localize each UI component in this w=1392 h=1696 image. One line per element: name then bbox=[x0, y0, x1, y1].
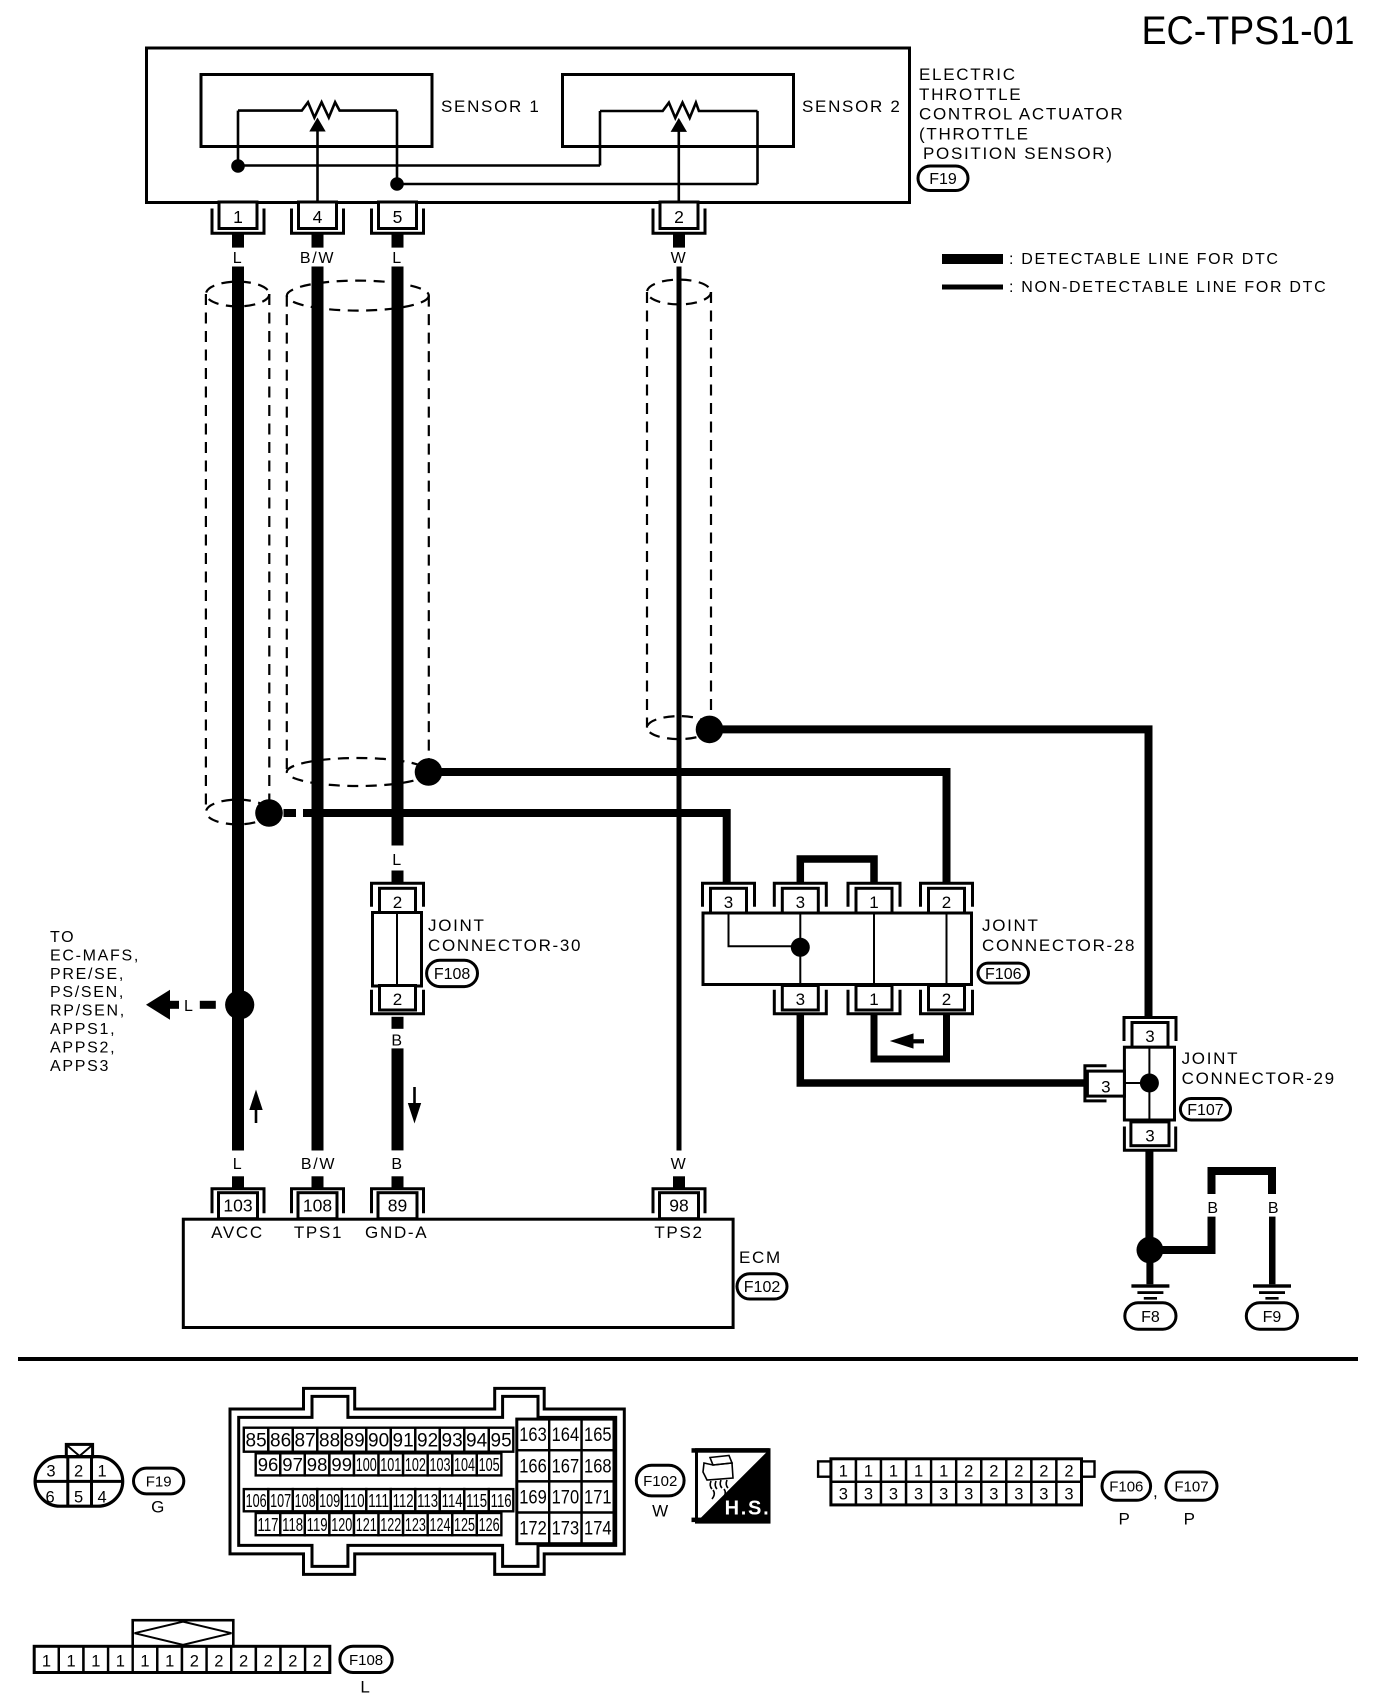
junction node on pin1 lead bbox=[231, 159, 245, 173]
svg-text:165: 165 bbox=[584, 1425, 612, 1446]
up arrow beside wire L bbox=[249, 1090, 262, 1124]
internal junction node connector-29 bbox=[1140, 1074, 1159, 1093]
F106/F107 connector face view bbox=[818, 1459, 1094, 1505]
connector id F108 oval bbox=[427, 960, 478, 986]
svg-text:2: 2 bbox=[1039, 1463, 1048, 1481]
dash stub from shield node bbox=[284, 809, 297, 817]
legend detectable line sample bbox=[942, 254, 1003, 264]
svg-text:2: 2 bbox=[964, 1463, 973, 1481]
svg-text:1: 1 bbox=[140, 1653, 149, 1671]
svg-text:4: 4 bbox=[98, 1489, 109, 1507]
svg-text:ECM: ECM bbox=[739, 1248, 782, 1267]
svg-text:TO: TO bbox=[50, 929, 75, 946]
ECM pin 89 bbox=[372, 1176, 424, 1218]
ECM pin 103 bbox=[212, 1176, 264, 1218]
TO EC-MAFS text block bbox=[50, 929, 140, 1075]
joint connector-28 top pin 2 bbox=[921, 883, 973, 913]
wire connector-28 bottom pin 3 to joint connector-29 bbox=[800, 1014, 1084, 1083]
svg-text:P: P bbox=[1118, 1510, 1131, 1529]
left arrow inside U loop bbox=[890, 1033, 924, 1048]
svg-text:97: 97 bbox=[282, 1454, 303, 1475]
F108 connector face view bbox=[34, 1620, 330, 1672]
potentiometer R2 (sensor 2) bbox=[600, 103, 758, 203]
svg-text:CONNECTOR-28: CONNECTOR-28 bbox=[982, 936, 1136, 955]
ground wire from node to F8 bbox=[1146, 1261, 1153, 1284]
F19 connector face view bbox=[35, 1444, 123, 1506]
svg-text:102: 102 bbox=[405, 1454, 426, 1475]
svg-text:85: 85 bbox=[246, 1431, 267, 1452]
svg-text:98: 98 bbox=[669, 1196, 688, 1216]
wire B from joint connector-30 to ECM 89 (detectable) bbox=[392, 1048, 404, 1150]
svg-text:: DETECTABLE LINE FOR DTC: : DETECTABLE LINE FOR DTC bbox=[1009, 251, 1280, 268]
svg-text:93: 93 bbox=[442, 1431, 463, 1452]
svg-text:F106: F106 bbox=[985, 966, 1022, 983]
svg-text:88: 88 bbox=[319, 1431, 340, 1452]
connector id F102 oval bbox=[737, 1274, 787, 1299]
svg-text:1: 1 bbox=[939, 1463, 948, 1481]
electric throttle control actuator box F19 bbox=[147, 48, 910, 203]
joint connector-30 bottom pin 2 bbox=[372, 986, 424, 1014]
joint connector-28 body F106 bbox=[703, 913, 972, 985]
svg-text:90: 90 bbox=[368, 1431, 389, 1452]
shield node W cylinder bbox=[696, 716, 724, 744]
svg-text:119: 119 bbox=[307, 1514, 328, 1535]
svg-text:TPS2: TPS2 bbox=[654, 1223, 703, 1242]
stub into joint connector-30 bbox=[392, 871, 404, 884]
jumper over to F9 (B wires) bbox=[1212, 1171, 1273, 1194]
svg-text:CONNECTOR-29: CONNECTOR-29 bbox=[1182, 1069, 1336, 1088]
ECM pins 96-105 bbox=[256, 1453, 502, 1475]
svg-text:117: 117 bbox=[258, 1514, 279, 1535]
svg-text:H.S.: H.S. bbox=[725, 1498, 771, 1520]
svg-text:6: 6 bbox=[46, 1489, 57, 1507]
svg-text:101: 101 bbox=[380, 1454, 401, 1475]
junction node on pin5 lead bbox=[390, 177, 404, 191]
svg-text:CONNECTOR-30: CONNECTOR-30 bbox=[428, 936, 582, 955]
svg-text:2: 2 bbox=[313, 1653, 322, 1671]
joint connector-30 top pin 2 bbox=[372, 883, 424, 913]
svg-text:SENSOR 2: SENSOR 2 bbox=[802, 97, 902, 116]
svg-text:91: 91 bbox=[393, 1431, 414, 1452]
stub below joint connector-30 bbox=[392, 1017, 404, 1029]
svg-text:116: 116 bbox=[491, 1490, 512, 1511]
svg-text:APPS2,: APPS2, bbox=[50, 1039, 116, 1056]
ground id F8 oval bbox=[1125, 1303, 1176, 1329]
U loop wire between bottom pins 1 and 2 bbox=[874, 1014, 947, 1059]
svg-text:: NON-DETECTABLE LINE FOR DTC: : NON-DETECTABLE LINE FOR DTC bbox=[1009, 279, 1327, 296]
svg-text:P: P bbox=[1184, 1510, 1197, 1529]
svg-text:APPS1,: APPS1, bbox=[50, 1021, 116, 1038]
wiper arrow sensor 1 bbox=[309, 118, 325, 132]
ground symbol F8 bbox=[1131, 1284, 1169, 1299]
F108 id oval (view) bbox=[340, 1646, 392, 1672]
svg-text:F107: F107 bbox=[1187, 1102, 1224, 1119]
svg-text:1: 1 bbox=[165, 1653, 174, 1671]
svg-text:2: 2 bbox=[264, 1653, 273, 1671]
svg-text:2: 2 bbox=[942, 893, 951, 912]
svg-text:3: 3 bbox=[1039, 1486, 1048, 1504]
svg-text:121: 121 bbox=[356, 1514, 377, 1535]
svg-text:F108: F108 bbox=[434, 966, 471, 983]
svg-text:2: 2 bbox=[74, 1463, 85, 1481]
svg-text:G: G bbox=[151, 1498, 166, 1517]
svg-text:3: 3 bbox=[46, 1463, 55, 1481]
wiper arrow sensor 2 bbox=[671, 118, 687, 132]
svg-text:112: 112 bbox=[393, 1490, 414, 1511]
dashed branch segment bbox=[200, 1001, 216, 1009]
svg-text:F102: F102 bbox=[744, 1279, 781, 1296]
svg-text:F108: F108 bbox=[349, 1652, 383, 1669]
joint connector-28 top pin 3 left bbox=[703, 883, 755, 913]
svg-text:2: 2 bbox=[393, 893, 402, 912]
svg-text:87: 87 bbox=[295, 1431, 316, 1452]
wire sensor1 pin5 node to sensor2 right end bbox=[397, 183, 758, 186]
svg-text:PS/SEN,: PS/SEN, bbox=[50, 984, 125, 1001]
svg-text:96: 96 bbox=[258, 1454, 279, 1475]
svg-text:4: 4 bbox=[313, 207, 323, 227]
svg-text:120: 120 bbox=[331, 1514, 352, 1535]
svg-text:92: 92 bbox=[417, 1431, 438, 1452]
svg-text:166: 166 bbox=[519, 1456, 547, 1477]
svg-text:3: 3 bbox=[724, 893, 733, 912]
svg-text:125: 125 bbox=[454, 1514, 475, 1535]
wire L from pin5 to joint connector-30 (detectable) bbox=[392, 267, 404, 846]
svg-text:115: 115 bbox=[466, 1490, 487, 1511]
svg-text:EC-MAFS,: EC-MAFS, bbox=[50, 947, 140, 964]
H.S. hood switch logo bbox=[692, 1448, 771, 1522]
svg-text:3: 3 bbox=[1064, 1486, 1073, 1504]
svg-text:B: B bbox=[1268, 1200, 1280, 1217]
svg-text:3: 3 bbox=[889, 1486, 898, 1504]
svg-text:B: B bbox=[391, 1033, 403, 1050]
svg-text:1: 1 bbox=[91, 1653, 100, 1671]
svg-text:F19: F19 bbox=[929, 171, 957, 188]
svg-text:5: 5 bbox=[74, 1489, 85, 1507]
connector id F106 oval bbox=[978, 963, 1029, 983]
joint connector-28 top pin 1 bbox=[848, 883, 900, 913]
ground wire connector-29 to F8 bbox=[1145, 1150, 1153, 1238]
shield cylinder around wires B/W and L (pins 4,5) bbox=[287, 281, 429, 786]
joint connector-29 top pin 3 bbox=[1124, 1018, 1176, 1048]
ECM pins 106-116 bbox=[244, 1489, 514, 1511]
svg-text:108: 108 bbox=[303, 1196, 332, 1216]
svg-text:94: 94 bbox=[466, 1431, 488, 1452]
wire B down to ground F9 bbox=[1269, 1217, 1276, 1285]
svg-text:174: 174 bbox=[584, 1519, 612, 1540]
svg-text:2: 2 bbox=[1064, 1463, 1073, 1481]
svg-text:3: 3 bbox=[914, 1486, 923, 1504]
svg-text:1: 1 bbox=[98, 1463, 109, 1481]
svg-text:2: 2 bbox=[239, 1653, 248, 1671]
svg-text:109: 109 bbox=[319, 1490, 340, 1511]
svg-text:164: 164 bbox=[552, 1425, 580, 1446]
svg-text:L: L bbox=[233, 1156, 244, 1173]
ECM pins 117-126 bbox=[256, 1513, 502, 1535]
svg-text:JOINT: JOINT bbox=[1182, 1049, 1240, 1068]
svg-text:113: 113 bbox=[417, 1490, 438, 1511]
svg-text:122: 122 bbox=[380, 1514, 401, 1535]
svg-text:F8: F8 bbox=[1141, 1309, 1160, 1326]
svg-text:2: 2 bbox=[942, 990, 951, 1009]
sensor 2 box bbox=[563, 75, 794, 147]
separator line bbox=[18, 1357, 1358, 1361]
svg-text:L: L bbox=[184, 998, 195, 1015]
svg-text:1: 1 bbox=[116, 1653, 125, 1671]
joint connector-29 left pin 3 bbox=[1085, 1066, 1125, 1101]
joint connector-29 bottom pin 3 bbox=[1124, 1122, 1175, 1150]
svg-text:L: L bbox=[233, 250, 244, 267]
pin 2 (actuator) bbox=[653, 202, 705, 248]
svg-text:3: 3 bbox=[1145, 1027, 1154, 1046]
shield ground wire W cylinder to joint connector-29 bbox=[719, 729, 1149, 1017]
pin 4 (actuator) bbox=[292, 202, 344, 248]
shield node 4/5 cylinder bbox=[415, 758, 443, 786]
svg-text:100: 100 bbox=[356, 1454, 377, 1475]
svg-text:99: 99 bbox=[331, 1454, 352, 1475]
joint connector-28 bottom pin 2 bbox=[921, 986, 973, 1014]
svg-text:1: 1 bbox=[839, 1463, 848, 1481]
svg-text:,: , bbox=[1153, 1482, 1159, 1501]
svg-text:CONTROL ACTUATOR: CONTROL ACTUATOR bbox=[919, 105, 1124, 124]
svg-text:3: 3 bbox=[989, 1486, 998, 1504]
svg-text:3: 3 bbox=[864, 1486, 873, 1504]
shield ground wire 4/5 cylinder to joint connector-28 pin 2 bbox=[438, 772, 947, 884]
junction node wire L branch bbox=[225, 990, 254, 1019]
svg-text:B: B bbox=[1207, 1200, 1219, 1217]
svg-text:1: 1 bbox=[42, 1653, 51, 1671]
ECM pin 108 bbox=[292, 1176, 344, 1218]
ground symbol F9 bbox=[1253, 1284, 1291, 1299]
svg-text:104: 104 bbox=[454, 1454, 475, 1475]
svg-text:(THROTTLE: (THROTTLE bbox=[919, 124, 1030, 143]
shield ground wire pin1 cylinder to joint connector-28 pin 3 bbox=[303, 813, 727, 884]
joint connector-28 top pin 3 bbox=[774, 883, 826, 913]
svg-text:SENSOR 1: SENSOR 1 bbox=[441, 97, 541, 116]
wire from ground node to jumper bbox=[1160, 1217, 1212, 1250]
svg-text:5: 5 bbox=[393, 207, 403, 227]
svg-text:1: 1 bbox=[869, 990, 878, 1009]
svg-text:167: 167 bbox=[552, 1456, 580, 1477]
svg-text:APPS3: APPS3 bbox=[50, 1058, 110, 1075]
svg-text:THROTTLE: THROTTLE bbox=[919, 85, 1022, 104]
svg-text:L: L bbox=[392, 250, 403, 267]
down arrow beside wire B bbox=[408, 1087, 421, 1124]
svg-text:103: 103 bbox=[223, 1196, 252, 1216]
svg-text:86: 86 bbox=[270, 1431, 291, 1452]
F102 id oval (view) bbox=[636, 1465, 684, 1496]
svg-text:124: 124 bbox=[430, 1514, 451, 1535]
svg-text:F102: F102 bbox=[643, 1473, 677, 1490]
svg-text:1: 1 bbox=[869, 893, 878, 912]
svg-text:AVCC: AVCC bbox=[211, 1223, 264, 1242]
legend non-detectable line sample bbox=[942, 285, 1003, 290]
svg-text:F19: F19 bbox=[146, 1473, 172, 1490]
svg-text:W: W bbox=[671, 1156, 688, 1173]
svg-text:107: 107 bbox=[270, 1490, 291, 1511]
svg-text:L: L bbox=[392, 852, 403, 869]
svg-text:3: 3 bbox=[839, 1486, 848, 1504]
svg-text:3: 3 bbox=[1101, 1078, 1110, 1097]
F106 id oval (view) bbox=[1102, 1472, 1151, 1500]
svg-text:118: 118 bbox=[282, 1514, 303, 1535]
wire W from pin2 to ECM 98 (non-detectable) bbox=[677, 267, 682, 1151]
svg-text:95: 95 bbox=[491, 1431, 512, 1452]
svg-text:3: 3 bbox=[1145, 1127, 1154, 1146]
svg-text:POSITION SENSOR): POSITION SENSOR) bbox=[923, 144, 1114, 163]
svg-text:2: 2 bbox=[190, 1653, 199, 1671]
svg-text:1: 1 bbox=[914, 1463, 923, 1481]
bridge wire between top pins 3 and 1 bbox=[800, 859, 874, 884]
svg-text:JOINT: JOINT bbox=[428, 916, 486, 935]
svg-text:3: 3 bbox=[796, 893, 805, 912]
svg-text:3: 3 bbox=[964, 1486, 973, 1504]
svg-text:B/W: B/W bbox=[301, 1156, 336, 1173]
svg-text:EC-TPS1-01: EC-TPS1-01 bbox=[1142, 9, 1355, 53]
svg-text:GND-A: GND-A bbox=[365, 1223, 428, 1242]
svg-text:168: 168 bbox=[584, 1456, 612, 1477]
connector id F107 oval bbox=[1180, 1099, 1230, 1121]
ECM pin 98 bbox=[653, 1176, 705, 1218]
svg-text:F9: F9 bbox=[1263, 1309, 1282, 1326]
svg-text:3: 3 bbox=[796, 990, 805, 1009]
svg-text:123: 123 bbox=[405, 1514, 426, 1535]
svg-text:2: 2 bbox=[288, 1653, 297, 1671]
svg-text:W: W bbox=[652, 1502, 670, 1521]
F107 id oval (view) bbox=[1166, 1472, 1217, 1500]
svg-text:103: 103 bbox=[430, 1454, 451, 1475]
svg-text:TPS1: TPS1 bbox=[294, 1223, 343, 1242]
svg-text:169: 169 bbox=[519, 1488, 547, 1509]
shield node pin1 cylinder bbox=[255, 799, 283, 827]
svg-text:89: 89 bbox=[344, 1431, 365, 1452]
svg-text:105: 105 bbox=[479, 1454, 500, 1475]
svg-text:3: 3 bbox=[939, 1486, 948, 1504]
ground junction node bbox=[1137, 1237, 1164, 1264]
svg-text:170: 170 bbox=[552, 1488, 580, 1509]
svg-text:W: W bbox=[671, 250, 688, 267]
F19 id oval (view) bbox=[134, 1468, 184, 1494]
svg-text:RP/SEN,: RP/SEN, bbox=[50, 1003, 126, 1020]
svg-text:2: 2 bbox=[674, 207, 684, 227]
svg-text:2: 2 bbox=[214, 1653, 223, 1671]
joint connector-30 body F108 bbox=[373, 913, 422, 987]
arrow to EC-MAFS (page link) bbox=[146, 990, 179, 1020]
svg-text:111: 111 bbox=[368, 1490, 389, 1511]
svg-text:106: 106 bbox=[246, 1490, 267, 1511]
pin 5 (actuator) bbox=[372, 202, 424, 248]
svg-text:1: 1 bbox=[864, 1463, 873, 1481]
svg-text:1: 1 bbox=[67, 1653, 76, 1671]
svg-text:110: 110 bbox=[344, 1490, 365, 1511]
svg-text:171: 171 bbox=[584, 1488, 612, 1509]
joint connector-28 bottom pin 3 bbox=[774, 986, 826, 1014]
svg-text:98: 98 bbox=[307, 1454, 328, 1475]
sensor 1 box bbox=[201, 75, 432, 147]
svg-text:B/W: B/W bbox=[300, 250, 335, 267]
svg-text:126: 126 bbox=[479, 1514, 500, 1535]
svg-text:163: 163 bbox=[519, 1425, 547, 1446]
shield cylinder around wire L pin1 bbox=[206, 282, 269, 825]
svg-text:1: 1 bbox=[889, 1463, 898, 1481]
joint connector-29 body F107 bbox=[1124, 1047, 1174, 1120]
svg-text:108: 108 bbox=[295, 1490, 316, 1511]
internal junction node connector-28 bbox=[791, 938, 810, 957]
svg-text:L: L bbox=[360, 1678, 371, 1696]
svg-text:173: 173 bbox=[552, 1519, 580, 1540]
svg-text:2: 2 bbox=[1014, 1463, 1023, 1481]
wire B/W from pin4 to ECM 108 (detectable) bbox=[312, 267, 324, 1151]
ground id F9 oval bbox=[1246, 1303, 1297, 1329]
connector id F19 oval bbox=[918, 166, 968, 191]
pin 1 (actuator) bbox=[212, 202, 264, 248]
ECM pins 85-95 bbox=[244, 1428, 514, 1452]
svg-text:172: 172 bbox=[519, 1519, 547, 1540]
shield cylinder around wire W pin2 bbox=[647, 280, 711, 739]
svg-text:3: 3 bbox=[1014, 1486, 1023, 1504]
svg-text:F107: F107 bbox=[1174, 1479, 1208, 1496]
svg-text:114: 114 bbox=[442, 1490, 463, 1511]
svg-text:2: 2 bbox=[393, 990, 402, 1009]
svg-text:F106: F106 bbox=[1109, 1479, 1143, 1496]
svg-text:1: 1 bbox=[233, 207, 243, 227]
potentiometer R1 (sensor 1) bbox=[238, 102, 397, 203]
svg-text:B: B bbox=[391, 1156, 403, 1173]
ECM connector F102 face view shell bbox=[230, 1388, 624, 1574]
svg-text:JOINT: JOINT bbox=[982, 916, 1040, 935]
joint connector-28 bottom pin 1 bbox=[848, 986, 900, 1014]
wire L from pin1 to ECM 103 (detectable) bbox=[232, 267, 244, 1151]
svg-text:ELECTRIC: ELECTRIC bbox=[919, 65, 1017, 84]
svg-text:PRE/SE,: PRE/SE, bbox=[50, 966, 125, 983]
ECM pins 163-174 block bbox=[517, 1419, 614, 1544]
svg-text:2: 2 bbox=[989, 1463, 998, 1481]
svg-text:89: 89 bbox=[388, 1196, 407, 1216]
wire sensor1 pin1 node to sensor2 left end bbox=[238, 164, 600, 167]
ECM box bbox=[183, 1219, 733, 1327]
